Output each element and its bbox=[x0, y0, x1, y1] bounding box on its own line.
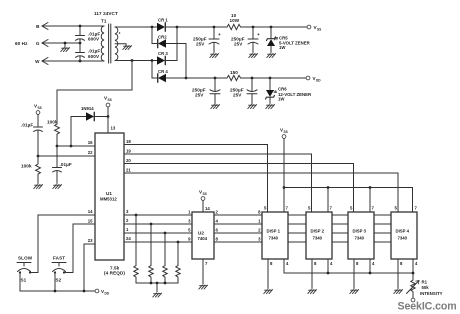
svg-text:1W: 1W bbox=[278, 97, 285, 102]
capacitor 250uF 25V no.3 bbox=[192, 78, 220, 104]
svg-text:7: 7 bbox=[286, 206, 289, 211]
junction 60Hz pickoff bbox=[131, 59, 134, 62]
svg-text:5: 5 bbox=[188, 228, 191, 233]
diode CR3 bbox=[157, 51, 177, 65]
svg-text:+: + bbox=[218, 32, 221, 37]
wire VSS rail to DISP4 pin7 bbox=[284, 188, 413, 213]
capacitor 0.1uF 600V upper bbox=[76, 26, 101, 43]
svg-text:W: W bbox=[35, 59, 40, 64]
svg-text:U1: U1 bbox=[106, 191, 112, 196]
svg-text:8: 8 bbox=[356, 261, 359, 266]
wire display anode bus bbox=[284, 272, 413, 274]
wire pin13 bbox=[108, 107, 116, 133]
resistor 7.5k no.1 bbox=[134, 215, 138, 283]
switch S2 FAST pushbutton bbox=[52, 256, 66, 283]
wire W line bbox=[43, 60, 105, 62]
svg-text:8: 8 bbox=[314, 261, 317, 266]
U2 pin labels left bbox=[188, 210, 191, 242]
wire CR1-CR3 cathode join bbox=[176, 27, 178, 61]
wire pin1 data line bbox=[124, 232, 192, 234]
svg-text:25V: 25V bbox=[195, 93, 204, 98]
wire VDD raw rail bbox=[186, 77, 227, 79]
wire S1 left to bus bbox=[19, 273, 21, 292]
junction secondary top bbox=[151, 26, 154, 29]
capacitor 250uF 25V no.2 bbox=[231, 27, 260, 53]
svg-text:CR2: CR2 bbox=[158, 35, 167, 40]
svg-text:4: 4 bbox=[286, 261, 289, 266]
terminal VSS bbox=[307, 25, 321, 32]
transformer T1 117/24VCT bbox=[94, 11, 120, 63]
svg-text:SS: SS bbox=[203, 192, 207, 196]
capacitor 0.1uF left bbox=[21, 115, 43, 157]
svg-text:DISP 2: DISP 2 bbox=[311, 229, 325, 234]
wire pin18 to DISP1 pin5 bbox=[124, 145, 268, 213]
wire pin23 to bus bbox=[84, 244, 95, 291]
terminal R1 wiper bbox=[411, 295, 415, 302]
diode CR2 bbox=[158, 35, 186, 48]
wire DISP3 pin7 bbox=[369, 188, 371, 213]
svg-text:8: 8 bbox=[258, 210, 261, 215]
ground on G line bbox=[61, 43, 70, 52]
junction dots anode bus bbox=[327, 272, 415, 275]
svg-text:U2: U2 bbox=[198, 231, 204, 236]
ground cap4 bbox=[248, 105, 257, 109]
svg-text:DD: DD bbox=[105, 292, 110, 296]
svg-text:21: 21 bbox=[126, 168, 131, 173]
resistor 100k mid bbox=[47, 120, 59, 147]
wire U2 pin14 bbox=[203, 201, 210, 213]
wire CR2-CR4 anode join bbox=[185, 44, 187, 79]
svg-text:2: 2 bbox=[126, 218, 129, 223]
wire DISP1 pin8 ground lead bbox=[268, 259, 273, 289]
svg-text:2: 2 bbox=[216, 210, 219, 215]
wire 60Hz pickoff to 100k bbox=[57, 61, 132, 125]
svg-text:3: 3 bbox=[126, 209, 129, 214]
svg-text:R1: R1 bbox=[422, 280, 428, 285]
svg-text:7340: 7340 bbox=[398, 236, 408, 241]
ground DISP1 bbox=[264, 290, 273, 294]
junction pin13 node bbox=[107, 115, 110, 118]
svg-text:8: 8 bbox=[400, 261, 403, 266]
wire secondary bottom to CR3 bbox=[115, 60, 157, 62]
svg-text:DD: DD bbox=[316, 79, 321, 83]
junction dots VSS rail bbox=[213, 26, 273, 29]
svg-text:SS: SS bbox=[317, 28, 321, 32]
svg-text:DISP 3: DISP 3 bbox=[353, 229, 367, 234]
wire VSS raw rail bbox=[177, 26, 227, 28]
wires U2 outputs to DISP1 bbox=[214, 215, 262, 242]
wire pin15 to S2 bbox=[73, 224, 95, 273]
svg-text:14: 14 bbox=[88, 209, 93, 214]
svg-text:1: 1 bbox=[258, 219, 261, 224]
capacitor 0.1uF mid bbox=[53, 146, 72, 184]
svg-text:7: 7 bbox=[205, 261, 208, 266]
ground center tap bbox=[123, 44, 132, 50]
display U6 DISP 4 7340 bbox=[391, 212, 417, 259]
svg-text:.01µF: .01µF bbox=[88, 49, 100, 54]
svg-text:1: 1 bbox=[126, 227, 129, 232]
svg-text:+: + bbox=[257, 32, 260, 37]
svg-text:600V: 600V bbox=[88, 54, 100, 59]
ground 0.1uF mid bbox=[53, 185, 62, 189]
resistor 7.5k no.3 bbox=[163, 233, 167, 283]
wire U2 pin7 ground lead bbox=[203, 259, 208, 284]
diode CR4 bbox=[158, 69, 186, 82]
wire DISP2 pin4 bbox=[328, 259, 333, 273]
junction VSS rail branch bbox=[283, 186, 286, 189]
svg-text:5: 5 bbox=[395, 206, 398, 211]
svg-text:7404: 7404 bbox=[198, 236, 208, 241]
wire pin2 data line bbox=[124, 223, 192, 225]
wire pin24 data line bbox=[124, 241, 192, 243]
terminal VSS above U2 bbox=[199, 190, 207, 201]
svg-text:7: 7 bbox=[372, 206, 375, 211]
svg-text:20: 20 bbox=[126, 158, 131, 163]
svg-text:S2: S2 bbox=[56, 278, 62, 283]
resistor 150 ohm bbox=[227, 70, 241, 81]
svg-text:25V: 25V bbox=[233, 93, 242, 98]
svg-text:117 24VCT: 117 24VCT bbox=[94, 11, 118, 16]
terminal VSS left column bbox=[34, 104, 42, 115]
wire DISP4 pin8 ground lead bbox=[398, 259, 403, 289]
wire VSS drop to DISP1 pin7 bbox=[283, 139, 285, 213]
svg-text:60 Hz: 60 Hz bbox=[15, 41, 28, 46]
ground 100k left bbox=[34, 185, 43, 189]
svg-text:4: 4 bbox=[330, 261, 333, 266]
junction 1N914 branch bbox=[70, 145, 73, 148]
zener CR5 5-volt bbox=[267, 27, 311, 53]
ground cap3 bbox=[211, 105, 220, 109]
svg-text:1: 1 bbox=[188, 210, 191, 215]
ground U2 bbox=[199, 285, 208, 289]
svg-text:100k: 100k bbox=[47, 120, 58, 125]
junction pin16 node bbox=[56, 145, 59, 148]
svg-text:23: 23 bbox=[88, 238, 93, 243]
svg-text:INTENSITY: INTENSITY bbox=[420, 291, 443, 296]
inverter U2 7404 bbox=[192, 212, 214, 259]
svg-text:9: 9 bbox=[188, 237, 191, 242]
switch S1 SLOW pushbutton bbox=[17, 256, 33, 283]
wire DISP1 pin4 to bus bbox=[284, 259, 289, 273]
wire DISP3 pin4 bbox=[370, 259, 375, 273]
diode CR1 bbox=[157, 18, 177, 32]
svg-text:4: 4 bbox=[372, 261, 375, 266]
wire 1N914 anode riser bbox=[71, 117, 86, 147]
wire stub to CR2 bbox=[152, 27, 158, 44]
svg-text:25V: 25V bbox=[196, 42, 205, 47]
svg-text:CR 4: CR 4 bbox=[158, 69, 168, 74]
svg-text:(4 REQD): (4 REQD) bbox=[104, 271, 125, 276]
svg-text:100k: 100k bbox=[21, 164, 32, 169]
ground 7.5k bus bbox=[153, 283, 162, 297]
wire B line bbox=[43, 25, 105, 27]
junction dots data lines bbox=[135, 214, 180, 244]
wire S1 right contact bbox=[30, 272, 38, 274]
svg-text:50k: 50k bbox=[422, 285, 430, 290]
wire switch bus to VDD bbox=[20, 290, 95, 292]
svg-text:14: 14 bbox=[205, 206, 210, 211]
ground DISP2 bbox=[308, 290, 317, 294]
svg-text:22: 22 bbox=[88, 150, 93, 155]
display U4 DISP 2 7340 bbox=[306, 212, 332, 259]
svg-text:4: 4 bbox=[216, 219, 219, 224]
resistor 7.5k no.4 bbox=[176, 242, 180, 283]
junction pin22 node bbox=[37, 155, 40, 158]
svg-text:DISP 1: DISP 1 bbox=[267, 229, 281, 234]
svg-text:5: 5 bbox=[350, 206, 353, 211]
svg-text:MM5312: MM5312 bbox=[100, 197, 117, 202]
wire DISP4 pin4 bbox=[413, 259, 418, 280]
svg-text:CR6: CR6 bbox=[278, 87, 287, 92]
svg-text:.01µF: .01µF bbox=[60, 162, 72, 167]
svg-text:SS: SS bbox=[284, 130, 288, 134]
svg-text:FAST: FAST bbox=[53, 256, 65, 261]
op-amp U1 MM5312 bbox=[95, 133, 124, 260]
wire pin19 to DISP2 pin5 bbox=[124, 154, 312, 212]
wire pin21 to DISP4 pin5 bbox=[124, 173, 398, 212]
wires display data bus gap3 bbox=[374, 215, 391, 242]
svg-text:G: G bbox=[36, 41, 40, 46]
svg-text:8: 8 bbox=[270, 261, 273, 266]
svg-text:25V: 25V bbox=[234, 42, 243, 47]
svg-text:SS: SS bbox=[38, 106, 42, 110]
svg-text:DISP 4: DISP 4 bbox=[396, 229, 410, 234]
resistor 100k left bbox=[21, 156, 40, 184]
display U5 DISP 3 7340 bbox=[348, 212, 374, 259]
node W input arrow bbox=[35, 58, 48, 65]
wire VSS rail to terminal bbox=[241, 26, 307, 28]
junction dots on input lines bbox=[64, 25, 82, 63]
svg-text:S1: S1 bbox=[21, 278, 27, 283]
svg-text:.01µF: .01µF bbox=[21, 123, 33, 128]
svg-text:4: 4 bbox=[415, 261, 418, 266]
wire pin22 line bbox=[38, 155, 95, 157]
svg-text:5: 5 bbox=[308, 206, 311, 211]
svg-text:150: 150 bbox=[230, 70, 238, 75]
svg-text:18: 18 bbox=[126, 139, 131, 144]
junction dots VDD rail bbox=[214, 77, 272, 80]
resistor 7.5k no.2 bbox=[149, 224, 153, 283]
terminal VSS above 1N914 bbox=[104, 96, 112, 107]
wires display data bus gap1 bbox=[288, 215, 306, 242]
node B input arrow bbox=[36, 23, 48, 30]
ground CR5 bbox=[267, 54, 276, 58]
node G input arrow bbox=[15, 40, 48, 47]
wire S2 right contact bbox=[64, 272, 73, 274]
U2 pin labels right bbox=[216, 210, 219, 242]
svg-text:SeekIC.com: SeekIC.com bbox=[398, 301, 457, 313]
svg-text:600V: 600V bbox=[88, 37, 100, 42]
svg-text:SLOW: SLOW bbox=[18, 256, 33, 261]
label 7.5k 4 REQD bbox=[104, 266, 125, 276]
terminal VDD bbox=[306, 76, 321, 83]
wire pin3 data line bbox=[124, 214, 192, 216]
wire secondary top to CR1 bbox=[115, 26, 157, 28]
junction dots VSS rail displays bbox=[327, 186, 372, 189]
capacitor 0.1uF 600V lower bbox=[76, 43, 101, 61]
svg-text:13: 13 bbox=[111, 126, 116, 131]
svg-text:5: 5 bbox=[264, 206, 267, 211]
svg-text:7340: 7340 bbox=[355, 236, 365, 241]
wire pin14 to S1 bbox=[38, 215, 95, 273]
svg-text:B: B bbox=[36, 24, 40, 29]
svg-text:7340: 7340 bbox=[269, 236, 279, 241]
wire pin20 to DISP3 pin5 bbox=[124, 164, 354, 213]
junction at CR4 anode rail bbox=[185, 77, 188, 80]
svg-text:T1: T1 bbox=[101, 19, 107, 24]
ground DISP4 bbox=[394, 290, 403, 294]
svg-text:1W: 1W bbox=[279, 45, 286, 50]
wire G line bbox=[43, 42, 81, 44]
junction dots 7.5k bus bbox=[150, 282, 167, 285]
svg-text:7: 7 bbox=[330, 206, 333, 211]
svg-text:2: 2 bbox=[258, 228, 261, 233]
wires display data bus gap2 bbox=[332, 215, 348, 242]
svg-text:SS: SS bbox=[108, 98, 112, 102]
wire stub to CR4 bbox=[152, 61, 158, 79]
svg-text:16: 16 bbox=[88, 140, 93, 145]
svg-text:3: 3 bbox=[258, 237, 261, 242]
svg-text:7: 7 bbox=[415, 206, 418, 211]
junction dots switch bus bbox=[54, 290, 86, 293]
wire DISP2 pin8 ground lead bbox=[312, 259, 317, 289]
resistor 10 ohm 10W bbox=[227, 13, 241, 30]
wire DISP2 pin7 bbox=[327, 188, 329, 213]
svg-text:8: 8 bbox=[216, 237, 219, 242]
wire S2 left to bus bbox=[54, 273, 56, 292]
svg-text:15: 15 bbox=[88, 219, 93, 224]
ground cap1 bbox=[210, 54, 219, 58]
svg-text:CR 1: CR 1 bbox=[158, 18, 168, 23]
svg-text:CR 3: CR 3 bbox=[158, 51, 168, 56]
DISP1 pin labels left bbox=[258, 210, 261, 242]
wire DISP3 pin8 ground lead bbox=[354, 259, 359, 289]
svg-text:1N914: 1N914 bbox=[81, 106, 94, 111]
terminal VDD switch bus bbox=[95, 289, 110, 296]
display U3 DISP 1 7340 bbox=[262, 212, 288, 259]
svg-text:24: 24 bbox=[126, 236, 131, 241]
wire VDD rail to terminal bbox=[241, 77, 306, 79]
wire 7.5k bus bbox=[136, 282, 178, 284]
junction secondary bottom bbox=[151, 59, 154, 62]
wire pin16 line bbox=[57, 145, 95, 147]
potentiometer R1 50k intensity bbox=[407, 280, 443, 297]
ground cap2 bbox=[249, 54, 258, 58]
junction at CR1 cathode bbox=[176, 26, 179, 29]
svg-text:7340: 7340 bbox=[313, 236, 323, 241]
ground DISP3 bbox=[350, 290, 359, 294]
terminal VSS display rail bbox=[280, 128, 288, 139]
ground CR6 bbox=[266, 105, 275, 109]
capacitor 250uF 25V no.1 bbox=[193, 27, 221, 53]
capacitor 250uF 25V no.4 bbox=[230, 78, 257, 104]
svg-text:3: 3 bbox=[188, 219, 191, 224]
svg-text:19: 19 bbox=[126, 149, 131, 154]
svg-text:10W: 10W bbox=[230, 18, 240, 23]
zener CR6 12-volt bbox=[266, 78, 313, 104]
diode 1N914 bbox=[81, 106, 108, 121]
wire transformer center tap bbox=[115, 43, 126, 45]
svg-text:6: 6 bbox=[216, 228, 219, 233]
